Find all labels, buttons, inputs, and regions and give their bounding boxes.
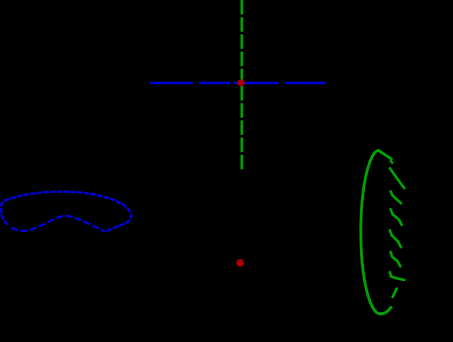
wire (199, 82, 231, 84)
hatch B (391, 191, 402, 203)
green ellipse: solid left arc (361, 150, 393, 314)
wire (234, 82, 279, 84)
hatch C (391, 209, 402, 225)
blue dashed crescent: outer silhouette arc (1, 192, 131, 232)
node: red point at axes intersection (238, 79, 245, 86)
wire (150, 82, 193, 84)
hatch G (393, 289, 397, 297)
wire (285, 82, 326, 84)
blue dashed crescent: inner rim arch (12, 216, 106, 231)
hatch E (391, 252, 401, 266)
axis: blue dashed horizontal line (150, 82, 326, 84)
hatch F (390, 272, 404, 280)
hatch D (390, 230, 401, 247)
green dashes/hatches on right of ellipse (390, 161, 404, 297)
node: red point lower center (236, 259, 244, 267)
hatch A (390, 168, 404, 188)
axis: green dashed vertical line (241, 0, 244, 169)
hatch dot (391, 161, 392, 163)
